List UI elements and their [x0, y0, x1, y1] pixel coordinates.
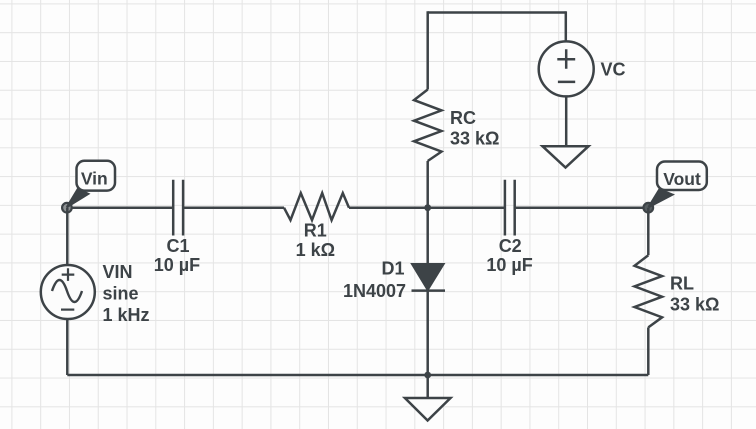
- ground (bottom): [405, 398, 451, 421]
- voltage source VC: [539, 41, 594, 96]
- label VIN sine 1 kHz: [103, 262, 150, 325]
- resistor RL: [635, 255, 663, 327]
- wire ground lead: [426, 375, 429, 398]
- wire top rail: [428, 11, 566, 14]
- diode D1: [412, 264, 446, 290]
- capacitor C1: [173, 180, 183, 236]
- resistor R1: [284, 193, 349, 220]
- label VC: [601, 60, 626, 80]
- node Vin: [62, 203, 72, 213]
- wire bottom rail: [67, 374, 648, 377]
- svg-text:D1: D1: [381, 258, 404, 278]
- capacitor C2: [505, 180, 515, 236]
- ground under VC: [543, 146, 589, 167]
- wire main rail segment 2 (C1 to R1): [183, 206, 284, 209]
- wire RC top lead: [426, 11, 429, 89]
- svg-text:C2: C2: [499, 236, 522, 256]
- source VIN (sine): [41, 265, 95, 319]
- callout label Vout: [648, 162, 707, 209]
- callout label Vin: [66, 161, 115, 208]
- wire main rail segment 1 (Vin to C1): [67, 206, 173, 209]
- junction node (center): [424, 204, 431, 211]
- wire RC bottom to node: [426, 161, 429, 208]
- svg-text:VIN: VIN: [103, 262, 133, 282]
- svg-text:1N4007: 1N4007: [343, 281, 406, 301]
- svg-text:C1: C1: [166, 236, 189, 256]
- node Vout: [644, 203, 654, 213]
- label C2 10 µF: [486, 236, 532, 275]
- label R1 1 kΩ: [296, 221, 335, 261]
- svg-text:33 kΩ: 33 kΩ: [670, 295, 719, 315]
- resistor RC: [414, 90, 442, 162]
- svg-text:RC: RC: [450, 108, 476, 128]
- svg-text:33 kΩ: 33 kΩ: [450, 129, 499, 149]
- svg-text:Vout: Vout: [663, 169, 701, 189]
- svg-text:10 µF: 10 µF: [154, 255, 200, 275]
- label C1 10 µF: [154, 236, 200, 275]
- wire VIN top lead: [66, 208, 69, 265]
- svg-text:sine: sine: [103, 283, 139, 303]
- svg-text:RL: RL: [670, 274, 694, 294]
- wire main rail segment 4 (C2 to Vout): [515, 206, 649, 209]
- label D1 1N4007: [343, 258, 406, 301]
- svg-text:Vin: Vin: [81, 169, 108, 189]
- wire VC bottom lead: [565, 96, 568, 146]
- svg-text:1 kHz: 1 kHz: [103, 305, 150, 325]
- wire VC top lead: [565, 11, 568, 41]
- wire diode cathode lead: [426, 291, 429, 375]
- svg-text:VC: VC: [601, 60, 626, 80]
- wire RL bottom lead: [647, 327, 650, 375]
- svg-text:1 kΩ: 1 kΩ: [296, 240, 335, 260]
- junction node (bottom): [424, 372, 431, 379]
- wire VIN bottom lead: [66, 319, 69, 375]
- svg-text:10 µF: 10 µF: [486, 255, 532, 275]
- wire main rail segment 3 (R1 to C2): [349, 206, 505, 209]
- wire RL top lead: [647, 208, 650, 256]
- label RL 33 kΩ: [670, 274, 719, 315]
- wire diode anode lead: [426, 208, 429, 265]
- svg-text:R1: R1: [304, 221, 327, 241]
- label RC 33 kΩ: [450, 108, 499, 149]
